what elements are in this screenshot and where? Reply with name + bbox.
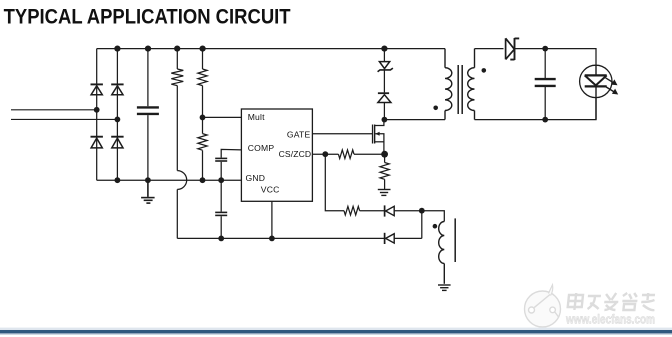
node aux winding junction [419,208,425,214]
wire output bottom rail [475,98,597,120]
ground symbol (bulk) [141,180,155,203]
svg-text:www.elecfans.com: www.elecfans.com [565,313,655,327]
diode output rectifier [506,38,546,60]
node primary phase dot [433,106,438,111]
diode bridge D2 (top-right) [111,84,123,94]
svg-text:Mult: Mult [248,112,265,122]
diode clamp [378,93,391,119]
resistor ZCD [344,206,384,215]
capacitor VCC [215,180,227,238]
watermark chinese text [567,293,656,310]
node ground rail / bulk cap [145,177,151,183]
node AC input / bridge right mid [115,117,121,123]
node top rail / startup resistor [174,46,180,52]
wire Mult pin [203,116,242,118]
svg-text:GND: GND [246,173,266,183]
svg-text:VCC: VCC [261,185,280,195]
node top rail / bridge right leg [114,46,120,52]
node secondary phase dot [482,68,487,73]
ground symbol (sense) [378,190,391,196]
LED emission arrows [606,78,619,95]
wire hop over ground rail [177,171,186,190]
svg-text:GATE: GATE [287,130,311,140]
resistor Mult divider lower [198,134,207,181]
node top rail / bulk cap [145,46,151,52]
watermark logo circle [525,285,561,327]
svg-text:TYPICAL APPLICATION CIRCUIT: TYPICAL APPLICATION CIRCUIT [4,3,292,28]
wire startup to VCC rail [176,189,178,238]
resistor startup (top) [171,49,183,171]
wire top rail [97,48,445,50]
node MOSFET source junction [381,151,388,158]
wire aux winding top [422,211,445,222]
aux core bar [454,218,456,262]
diode bridge D3 (bottom-left) [91,137,103,148]
resistor CS [338,150,384,159]
node output top / cap [542,46,548,52]
node Mult pin junction [200,115,206,121]
node ground rail / divider lower [200,177,206,183]
node top rail / clamp [381,46,387,52]
wire bridge left leg [96,49,98,181]
resistor Mult divider upper [198,49,207,134]
wire GATE pin [312,133,372,135]
svg-text:COMP: COMP [248,143,275,153]
wire CS/ZCD drop [325,154,344,211]
inductor transformer primary [445,49,452,120]
capacitor output [535,49,556,120]
diode ZCD (points left) [385,205,422,216]
svg-text:CS/ZCD: CS/ZCD [279,149,312,159]
node VCC rail / VCC cap [218,236,224,242]
node AC input / bridge left mid [94,107,100,113]
wire ground rail [97,179,242,181]
ground symbol (aux) [438,285,451,290]
op-amp U1 controller IC box [241,109,312,201]
node top rail / Mult divider [200,46,206,52]
inductor aux winding [439,222,445,284]
footer blue bar [0,328,672,331]
transistor Q1 MOSFET [373,120,384,155]
resistor sense [380,154,389,189]
LED indicator [580,65,612,119]
diode bridge D4 (bottom-right) [111,137,123,148]
zener clamp [378,49,393,93]
wire secondary top [475,48,504,50]
node aux phase dot [433,224,438,229]
wire AC input line 2 [11,118,117,120]
wire CS/ZCD pin [312,153,338,155]
diode bridge D1 (top-left) [91,84,103,94]
wire output top [545,49,596,66]
wire VCC rail [177,237,384,239]
wire VCC pin [271,201,273,238]
wire aux node down [421,211,423,239]
capacitor bulk filter [137,49,159,181]
node ground rail / bridge right leg [115,177,121,183]
inductor transformer secondary [468,49,475,120]
diode VCC supply (points left) [385,233,422,244]
node MOSFET drain junction [382,117,388,123]
wire AC input line 1 [11,109,97,111]
wire primary bottom [384,119,445,121]
node output bottom / cap [542,117,548,123]
node VCC rail / VCC pin [269,236,275,242]
capacitor COMP [215,149,241,180]
transformer core [458,65,462,114]
node ground rail / VCC cap [218,177,224,183]
node CS/ZCD junction [322,151,328,157]
wire bridge right leg [116,49,118,181]
